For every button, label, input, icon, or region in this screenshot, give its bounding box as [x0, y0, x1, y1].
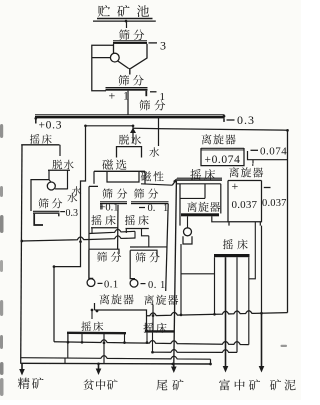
table mid2 left leg — [125, 229, 127, 234]
svg-text:0.3: 0.3 — [237, 113, 255, 127]
label lean middlings 贫中矿 — [83, 379, 94, 390]
wire: v92 to table — [91, 310, 93, 319]
wire: v147 leg — [146, 333, 148, 343]
wire: bus C h358 — [21, 356, 211, 360]
wire: screen mid2 underflow long — [166, 204, 169, 291]
node: dewater C label 脱水 — [119, 135, 129, 145]
wire: recycle loop from screen2 to washer — [92, 45, 114, 91]
circle low2 — [130, 279, 138, 287]
screen -0.3 left hook — [34, 214, 43, 225]
arrow concentrate — [21, 364, 23, 372]
wire: bracket left leg to circle — [89, 250, 93, 279]
arrow into table E — [172, 180, 176, 185]
wire: boxE right edge — [220, 184, 222, 214]
storage pool symbol line 1 — [97, 18, 153, 20]
svg-text:+0.074: +0.074 — [205, 154, 241, 166]
wire: feed v into cyclone3 — [204, 184, 206, 199]
pump circle on washer — [110, 53, 119, 62]
cyclone 3 left edge — [179, 184, 181, 226]
table L right leg — [59, 145, 61, 156]
wire: long bus h314 — [147, 311, 288, 316]
washer trommel body — [114, 44, 148, 69]
wire: v104 long — [103, 334, 105, 364]
screen 1 bar — [113, 40, 147, 42]
arrow rich middlings — [225, 257, 227, 368]
screen 3 right tick — [223, 118, 225, 122]
wire: magnetic fraction to table E — [141, 184, 172, 185]
wire: tailings long vertical — [174, 181, 177, 364]
arrow tailings — [173, 364, 175, 369]
cyclone 3 inner box top — [180, 197, 205, 199]
table bot2 line — [146, 330, 175, 332]
node: cyclone 1 label 离旋器 — [202, 134, 212, 144]
pump circle dewater L — [47, 182, 55, 190]
wire: v65 tick — [64, 358, 66, 363]
screen mid2 bar — [131, 201, 169, 203]
label -0.1 mid2 — [139, 207, 145, 209]
circle bracket U — [183, 236, 192, 244]
wire: screen1 oversize dash — [149, 42, 158, 44]
label water 水 left — [72, 186, 81, 195]
screen 2 right tick — [145, 91, 147, 97]
table mid1 line — [91, 227, 118, 229]
cyclone 1 box top thick — [201, 147, 244, 149]
wire: bus A h342 — [54, 340, 249, 345]
node: table bot2 label 摇床 — [143, 323, 153, 333]
table mid2 line — [126, 228, 149, 230]
arrow lean middlings — [98, 364, 100, 371]
wire: h274 connector — [181, 273, 215, 275]
wire: storage to screen 1 — [126, 21, 128, 28]
svg-text:3: 3 — [160, 39, 166, 53]
node: screen mid2 label 筛分 — [134, 189, 144, 199]
label -0.074 dash — [251, 149, 259, 151]
cyclone 1 box — [201, 148, 244, 166]
table mid1 legs — [91, 228, 93, 234]
table L line — [21, 144, 59, 146]
table mid2 right leg — [148, 236, 150, 247]
wire: cyclone low2 feed table — [152, 305, 154, 331]
magnetic sep left leg — [93, 171, 95, 184]
screen 2 bar — [106, 87, 148, 89]
wire: v into circle — [187, 216, 189, 227]
svg-text:+0.3: +0.3 — [39, 119, 63, 131]
label -0.3 dash small — [60, 211, 65, 213]
junction dots — [180, 314, 183, 317]
label -0.1 low1 — [98, 282, 103, 284]
svg-text:+: + — [232, 179, 239, 193]
label magnetic fraction 磁性 — [141, 171, 151, 181]
node: screen 2 label 筛分 — [118, 75, 129, 86]
wire: bracket2 left leg — [130, 250, 135, 278]
dewater L left leg — [48, 170, 50, 179]
storage pool symbol line 2 — [93, 20, 156, 22]
wire: recycle bus left — [86, 125, 134, 127]
wire: table L concentrate line (long left bus) — [21, 145, 22, 364]
node: shaking table L label 摇床 — [30, 134, 40, 144]
label -0.3 dash — [227, 119, 235, 121]
wire: through vertical x118 — [117, 205, 119, 249]
label -0.1 low2 — [141, 283, 146, 285]
screen low1 bracket — [89, 249, 119, 254]
cyclone 3 bottom bar — [181, 213, 219, 216]
label -0.037 dash — [264, 187, 271, 189]
node: cyclone 3 label 离旋器 — [187, 202, 197, 212]
node: cyclone low2 label 离旋器 — [144, 295, 154, 305]
magnetic sep right leg — [144, 171, 146, 184]
wire: right border down — [287, 130, 289, 312]
screen mid bracket corner — [89, 186, 98, 278]
screen mid1 left leg — [100, 204, 102, 210]
washer outlet tick — [129, 68, 131, 75]
wire: leg to circle — [49, 180, 51, 183]
circle low1 — [87, 279, 95, 287]
label water 水 C — [149, 147, 159, 157]
node: table R label 摇床 — [223, 239, 233, 249]
node: screen mid1 label 筛分 — [102, 189, 112, 199]
wire: recycle bus right — [133, 128, 288, 130]
label -1 dash — [150, 91, 157, 93]
label tailings 尾矿 — [156, 380, 167, 391]
wire: v255 jog — [249, 222, 256, 279]
svg-text:0.074: 0.074 — [260, 146, 287, 158]
node: screen -0.3 label 筛分 — [38, 198, 48, 208]
screen low2 bracket — [130, 250, 157, 256]
node: table bot1 label 摇床 — [81, 321, 91, 331]
wire: cyclone low1 out — [95, 303, 147, 331]
svg-text:0.3: 0.3 — [66, 208, 79, 219]
dewater L line — [48, 169, 70, 171]
wire: table R leg a — [214, 257, 216, 314]
magnetic separator line — [94, 170, 145, 172]
arrow slime — [261, 313, 263, 368]
wire: water feed from screen3 — [158, 117, 160, 146]
node: screen 1 label 筛分 — [119, 29, 130, 40]
screen -0.3 bar — [33, 210, 60, 212]
node: ore storage pool label 贮矿池 — [98, 5, 110, 17]
wire: slime vertical from cyclone2 — [261, 226, 263, 314]
wire: v135 step — [134, 231, 136, 238]
wire: -0.074 route — [248, 151, 288, 160]
svg-text:+0.1: +0.1 — [100, 202, 119, 213]
node: screen low1 label 筛分 — [97, 252, 107, 262]
wire: v210 junction — [210, 359, 212, 364]
node: table mid1 label 摇床 — [91, 215, 101, 225]
wire: L2 right part — [89, 236, 136, 240]
cyclone 2 box — [228, 181, 262, 222]
label rich middlings 富中矿 — [219, 379, 230, 390]
wire: main bus h241 — [22, 237, 90, 241]
table bot1 legs — [67, 334, 69, 342]
node: screen low2 label 筛分 — [135, 252, 145, 262]
wire: dewater L overflow to screen — [31, 180, 50, 211]
screen 3 long bar — [35, 114, 225, 116]
magnetic sep inner box — [107, 171, 139, 182]
wire: line h247 — [130, 246, 167, 248]
label concentrate 精矿 — [18, 378, 30, 389]
screen mid1 bar — [100, 201, 127, 203]
svg-text:0.037: 0.037 — [262, 198, 287, 209]
wire: table R leg c — [236, 257, 238, 352]
svg-text:0. 1: 0. 1 — [148, 280, 166, 291]
scan edge artifacts — [0, 124, 3, 138]
node: dewater L label 脱水 — [52, 160, 62, 170]
node: table mid2 label 摇床 — [125, 215, 135, 225]
wire: bus B h350.6 — [153, 350, 238, 353]
wire: cyclone2 feed tick — [252, 160, 254, 164]
svg-text:0.: 0. — [148, 203, 156, 214]
circle cyclone3 — [184, 228, 192, 236]
wire: cyclone3 out to right — [252, 164, 254, 166]
node: magnetic separator label 磁选 — [102, 159, 113, 169]
wire: boxE top thin line — [177, 183, 221, 185]
svg-text:0.037: 0.037 — [232, 199, 258, 211]
wire: cyclone3 bottom — [212, 216, 228, 222]
wire: bus down-left jog — [54, 126, 86, 342]
arrow up on dewater riser — [132, 126, 134, 144]
node: cyclone low1 label 离旋器 — [100, 294, 110, 304]
table R thick bar — [214, 254, 250, 257]
svg-text:0.1: 0.1 — [104, 280, 119, 291]
wire: L1 sloped — [89, 229, 135, 233]
wire: screen2 undersize down — [127, 91, 129, 115]
label water 水 mid — [67, 193, 77, 203]
wire: circle to water leg — [55, 188, 67, 190]
dewater C box — [117, 147, 142, 158]
node: screen 3 label 筛分 — [139, 100, 150, 111]
wire: bus D h363.8 — [21, 362, 210, 365]
screen 3 left tick — [35, 118, 37, 123]
dewater L right leg — [67, 171, 69, 190]
wire: v181 down — [180, 244, 182, 315]
table mid2 step — [142, 229, 149, 236]
svg-text:+: + — [109, 89, 116, 103]
node: cyclone 2 label 离旋器 — [229, 167, 239, 177]
table bot1 line — [67, 332, 126, 335]
table E thick bar — [177, 177, 222, 179]
wire: v152 leg — [152, 333, 154, 353]
wire: table R leg d — [248, 257, 250, 344]
screen -0.3 right tick — [58, 214, 60, 217]
cyclone 2 feet — [228, 222, 230, 226]
wire: v67 to bus C — [67, 333, 69, 358]
svg-text:1: 1 — [160, 91, 166, 103]
label slime 矿泥 — [270, 379, 281, 390]
node: table E label 摇床 — [190, 169, 201, 180]
